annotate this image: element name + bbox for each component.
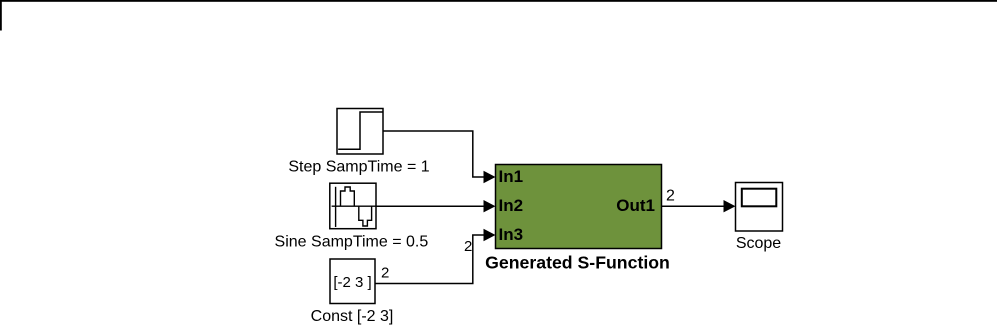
- arrowhead at In1 port: [484, 171, 496, 183]
- block Step (step source): [337, 109, 383, 155]
- sine icon horizontal axis: [332, 205, 376, 207]
- label "Sine SampTime = 0.5": [275, 233, 429, 250]
- svg-text:2: 2: [464, 238, 472, 255]
- port label Out1: [616, 196, 655, 215]
- wire: Out1 to Scope: [662, 205, 725, 207]
- signal width label 2 near In3 bend: [464, 238, 472, 255]
- block Scope: [736, 183, 783, 232]
- signal width label 2 at Const output: [381, 265, 389, 282]
- svg-text:Sine SampTime = 0.5: Sine SampTime = 0.5: [275, 233, 429, 250]
- step waveform icon: [338, 112, 382, 149]
- label "Const [-2 3]": [311, 308, 394, 325]
- svg-text:Out1: Out1: [616, 196, 655, 215]
- constant value text "[-2 3 ]": [333, 274, 371, 291]
- svg-text:In2: In2: [499, 196, 524, 215]
- block U1 Generated S-Function: [496, 165, 662, 249]
- svg-text:Step SampTime = 1: Step SampTime = 1: [288, 159, 429, 176]
- label "Generated S-Function": [485, 253, 670, 273]
- svg-text:Scope: Scope: [736, 235, 781, 252]
- wire: Step output to In1: [383, 131, 487, 177]
- block Const (constant source): [330, 259, 375, 304]
- sine icon vertical axis: [335, 187, 337, 227]
- arrowhead at Scope input port: [724, 200, 736, 212]
- label "Step SampTime = 1": [288, 159, 429, 176]
- sine icon staircase negative dip: [359, 206, 372, 226]
- svg-text:2: 2: [666, 188, 675, 205]
- signal width label 2 at Out1: [666, 188, 675, 205]
- arrowhead at In2 port: [484, 200, 496, 212]
- label "Scope": [736, 235, 781, 252]
- svg-text:Const [-2 3]: Const [-2 3]: [311, 308, 394, 325]
- svg-text:2: 2: [381, 265, 389, 282]
- window frame top edge: [0, 0, 997, 2]
- arrowhead at In3 port: [484, 229, 496, 241]
- port label In1: [499, 167, 524, 186]
- svg-text:[-2 3 ]: [-2 3 ]: [333, 274, 371, 291]
- wire: Sine output to In2: [376, 205, 487, 207]
- sine icon staircase positive hump: [341, 187, 355, 206]
- svg-text:Generated S-Function: Generated S-Function: [485, 253, 670, 273]
- port label In2: [499, 196, 524, 215]
- wire: Const output to In3: [375, 235, 487, 284]
- svg-text:In3: In3: [499, 225, 524, 244]
- window frame left edge: [0, 0, 2, 31]
- scope screen inner rectangle: [742, 189, 777, 207]
- block Sine (discrete sine source): [330, 183, 376, 229]
- port label In3: [499, 225, 524, 244]
- svg-text:In1: In1: [499, 167, 524, 186]
